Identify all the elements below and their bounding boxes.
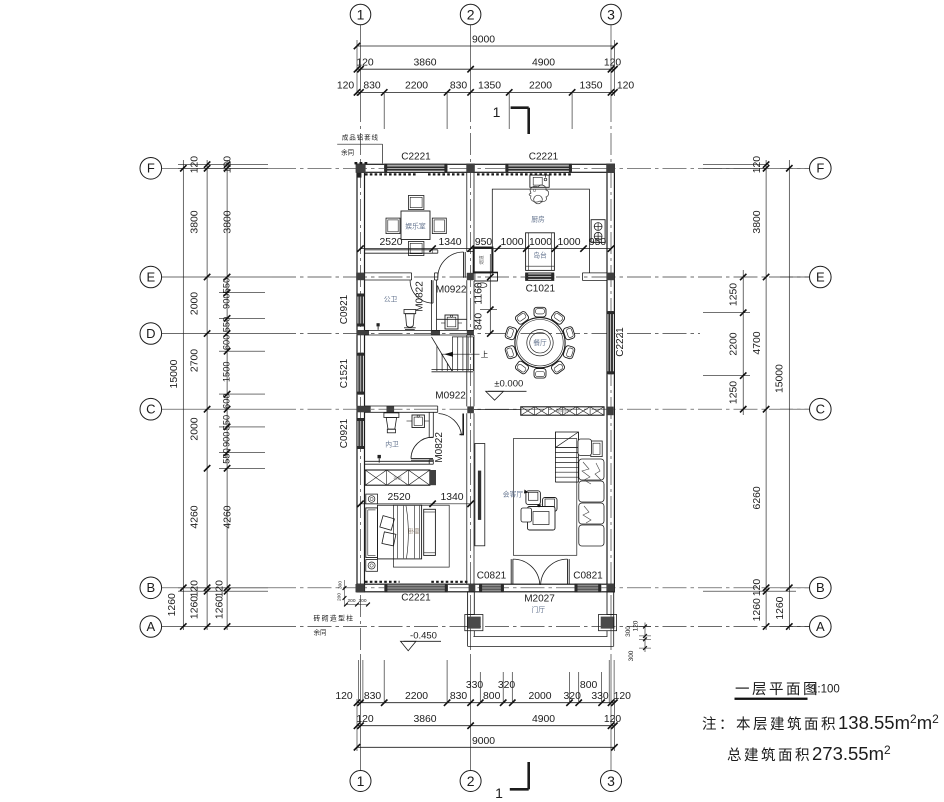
wall exterior left (357, 164, 365, 592)
kitchen counter edge (492, 189, 589, 273)
title first floor plan (735, 682, 840, 700)
svg-text:B: B (146, 580, 155, 595)
axis line vertical 1-2-3 (361, 25, 612, 770)
svg-text:300: 300 (628, 650, 635, 661)
svg-text:2520: 2520 (379, 237, 402, 248)
svg-text:3: 3 (607, 6, 615, 22)
wall D row (365, 331, 474, 335)
svg-text:1350: 1350 (579, 81, 602, 92)
dim chains left vertical lines (183, 160, 227, 630)
sofa row living (578, 439, 604, 546)
dining round table 10 chairs (504, 307, 575, 378)
window C2221 top left (384, 164, 447, 172)
svg-text:1350: 1350 (478, 81, 501, 92)
bed (366, 505, 422, 559)
label M0822 upper rot (414, 281, 425, 312)
svg-text:C1521: C1521 (339, 358, 350, 388)
svg-text:烟道: 烟道 (478, 255, 485, 264)
svg-text:200: 200 (347, 598, 355, 604)
dim top row 120 3860 4900 120 (354, 58, 622, 73)
label public wc (384, 296, 398, 304)
porch steps (468, 615, 614, 647)
svg-text:4700: 4700 (752, 331, 763, 354)
window C0821 bottom left (479, 584, 504, 592)
pier D/mid (431, 330, 440, 335)
section mark 1 top (493, 104, 529, 134)
svg-text:C2221: C2221 (401, 152, 431, 163)
svg-text:3800: 3800 (190, 210, 201, 233)
svg-text:1340: 1340 (440, 492, 463, 503)
tv cabinet (475, 444, 485, 546)
svg-text:830: 830 (364, 691, 382, 702)
dim top row 9000 (354, 35, 618, 97)
column B/2 (469, 584, 476, 592)
column C/3 (606, 407, 613, 416)
svg-text:120: 120 (356, 58, 374, 69)
svg-text:A: A (146, 619, 155, 634)
label M0922 upper (436, 284, 467, 295)
window C0921 left lower (357, 418, 365, 449)
svg-text:6260: 6260 (752, 486, 763, 509)
pier C/1 (357, 406, 371, 413)
svg-text:C2221: C2221 (401, 593, 431, 604)
svg-text:F: F (816, 161, 824, 176)
svg-text:餐厅: 餐厅 (533, 338, 547, 347)
svg-text:4260: 4260 (190, 505, 201, 528)
wall axis2 C to B (467, 413, 474, 584)
label game room (405, 222, 426, 231)
svg-text:C0921: C0921 (339, 294, 350, 324)
svg-text:120: 120 (337, 81, 355, 92)
svg-text:门厅: 门厅 (532, 605, 546, 614)
svg-text:岛台: 岛台 (533, 251, 547, 260)
svg-text:830: 830 (363, 81, 381, 92)
door M2027 entrance double (511, 559, 569, 585)
svg-text:2200: 2200 (405, 691, 428, 702)
bedroom rug (393, 505, 449, 567)
wall C row living segment (474, 409, 521, 411)
wardrobe bedroom (365, 470, 436, 485)
wall E row right of flue (474, 272, 498, 281)
svg-text:2520: 2520 (387, 492, 410, 503)
svg-text:C0821: C0821 (573, 571, 603, 582)
column B/1 (356, 584, 365, 592)
svg-text:2: 2 (467, 6, 475, 22)
svg-text:娱乐室: 娱乐室 (405, 222, 426, 231)
svg-text:内卫: 内卫 (385, 440, 399, 449)
svg-text:1500: 1500 (221, 361, 231, 382)
floor drain ensuite (378, 455, 381, 463)
svg-text:1250: 1250 (729, 283, 740, 306)
wall axis2 F to corridor (467, 172, 474, 251)
svg-text:1000: 1000 (529, 237, 552, 248)
label C1021 (526, 283, 556, 294)
kitchen stove (591, 220, 605, 243)
door M0922 corridor-dining (438, 252, 465, 278)
label C0821 left (477, 571, 507, 582)
axis bubbles F-A left (140, 158, 162, 638)
kitchen figure (529, 185, 549, 204)
svg-text:±0.000: ±0.000 (494, 379, 523, 390)
svg-text:成品铝套线: 成品铝套线 (342, 133, 379, 142)
svg-text:300: 300 (625, 626, 632, 637)
svg-text:200: 200 (358, 598, 366, 604)
note area text (702, 712, 939, 764)
porch side mini dims (625, 620, 651, 661)
label foyer (532, 605, 546, 614)
svg-text:120: 120 (617, 81, 635, 92)
wall bathroom2 east (429, 412, 433, 464)
dim row 2520 1340 950 1000 1000 1000 950 (357, 237, 614, 253)
toilet public wc (404, 310, 416, 330)
wall axis2 E to D (467, 280, 474, 330)
label island (533, 251, 547, 260)
svg-text:2000: 2000 (190, 292, 201, 315)
svg-text:120: 120 (604, 714, 622, 725)
game room table and chairs (386, 196, 446, 256)
svg-text:950: 950 (475, 237, 493, 248)
svg-text:15000: 15000 (775, 364, 786, 393)
label M0822 lower rot (434, 432, 445, 463)
svg-text:9000: 9000 (472, 736, 495, 747)
svg-text:320: 320 (498, 680, 516, 691)
svg-text:2200: 2200 (405, 81, 428, 92)
bedside stool upper (366, 494, 378, 504)
label C0821 right (573, 571, 603, 582)
wash basin nook (437, 315, 467, 329)
svg-text:120: 120 (214, 580, 225, 598)
label C2221 right rot (615, 327, 626, 357)
label dining (533, 338, 547, 347)
dim text left chain fine (214, 156, 233, 619)
svg-text:1250: 1250 (729, 381, 740, 404)
dim bottom row 120 3860 4900 120 (354, 714, 622, 729)
svg-text:9000: 9000 (472, 35, 495, 46)
curtain hatch bedroom (365, 581, 468, 583)
svg-text:1260: 1260 (167, 593, 178, 616)
wall E row bathroom north (365, 273, 438, 280)
svg-text:1260: 1260 (752, 598, 763, 621)
svg-text:900: 900 (221, 432, 231, 448)
svg-text:1260: 1260 (214, 596, 225, 619)
svg-text:330: 330 (591, 691, 609, 702)
wall partition below game room (365, 250, 438, 253)
svg-text:砖砌造型柱: 砖砌造型柱 (314, 614, 355, 623)
axis bubbles right (810, 158, 832, 638)
label C0921 lower rot (339, 418, 350, 448)
svg-text:M0822: M0822 (414, 281, 425, 312)
axis bubbles 1 2 3 top (350, 4, 621, 25)
axis line horizontal F E D C B A (162, 168, 809, 626)
svg-text:950: 950 (589, 237, 607, 248)
svg-text:2200: 2200 (529, 81, 552, 92)
svg-text:830: 830 (450, 691, 468, 702)
porch wall left (468, 592, 475, 615)
dim bottom row fine (335, 660, 631, 706)
wall C row (365, 406, 438, 412)
dim chain 1160 840 (474, 254, 498, 337)
svg-text:3800: 3800 (223, 210, 234, 233)
label kitchen (531, 214, 545, 223)
svg-text:600: 600 (221, 393, 231, 409)
window C2221 bottom bedroom (384, 584, 447, 592)
label C2221 top left (401, 152, 431, 163)
sink oval dining side (478, 283, 487, 288)
dim extension lines right (703, 165, 796, 592)
svg-text:4260: 4260 (223, 505, 234, 528)
living rug (513, 439, 576, 556)
svg-text:M0922: M0922 (436, 284, 467, 295)
window C1021 island pass-through (525, 273, 554, 280)
label bedroom (408, 528, 420, 536)
dim text right mid (752, 156, 763, 622)
window C1521 left (357, 353, 365, 395)
bench bedroom (424, 509, 436, 555)
svg-text:2200: 2200 (729, 332, 740, 355)
svg-text:120: 120 (604, 58, 622, 69)
door M0822 bathroom1 (410, 280, 433, 303)
window C0821 bottom right (575, 584, 602, 592)
porch column left (465, 615, 483, 631)
svg-text:550: 550 (221, 448, 231, 464)
floor drain public wc (377, 323, 380, 330)
svg-text:2: 2 (467, 773, 475, 789)
svg-text:厨房: 厨房 (531, 214, 545, 223)
column E/2 (467, 273, 474, 280)
column E/1 (356, 273, 364, 281)
svg-text:1000: 1000 (557, 237, 580, 248)
svg-text:C: C (146, 402, 155, 417)
dim text left 15000 (167, 359, 180, 616)
svg-text:550: 550 (221, 415, 231, 431)
svg-text:C0821: C0821 (477, 571, 507, 582)
label M2027 (524, 594, 555, 605)
svg-text:120: 120 (190, 156, 201, 174)
wall exterior bottom (357, 584, 614, 592)
porch column right (599, 615, 617, 631)
svg-text:1260: 1260 (190, 596, 201, 619)
svg-text:4900: 4900 (532, 58, 555, 69)
svg-text:水吧台: 水吧台 (556, 408, 569, 415)
leader brick column note (314, 580, 370, 637)
level marker zero (486, 379, 527, 401)
svg-text:330: 330 (466, 680, 484, 691)
dim chains right vertical lines (743, 160, 789, 630)
door M0922 hall-bedroomhall (439, 414, 464, 436)
svg-text:200: 200 (337, 593, 343, 601)
wall exterior right (607, 164, 614, 592)
coffee table set living (521, 490, 557, 531)
label C0921 upper rot (339, 294, 350, 324)
svg-text:900: 900 (221, 293, 231, 309)
door M0822 bathroom2 (411, 437, 433, 460)
bedside stool lower (366, 560, 378, 572)
dim row 2520 1340 bedroom (357, 492, 474, 507)
pier D/1 (357, 330, 370, 335)
svg-text:A: A (816, 619, 825, 634)
svg-text:C1021: C1021 (526, 283, 556, 294)
wall exterior top (357, 164, 614, 172)
dim ticks left (180, 161, 230, 629)
svg-text:1: 1 (495, 785, 503, 801)
dim text right fine (729, 283, 740, 404)
svg-text:120: 120 (356, 714, 374, 725)
svg-text:120: 120 (190, 580, 201, 598)
svg-text:卧室: 卧室 (408, 528, 420, 536)
label C2221 top kitchen (529, 152, 559, 163)
svg-text:D: D (146, 326, 155, 341)
svg-text:550: 550 (221, 278, 231, 294)
svg-text:4900: 4900 (532, 714, 555, 725)
level marker -0.450 (401, 630, 442, 651)
svg-text:E: E (816, 269, 825, 284)
label C1521 rot (339, 358, 350, 388)
svg-text:公卫: 公卫 (384, 296, 398, 304)
up label (481, 350, 489, 359)
svg-text:1000: 1000 (500, 237, 523, 248)
svg-text:120: 120 (335, 691, 353, 702)
svg-text:一层平面图: 一层平面图 (735, 682, 820, 698)
bar cabinet living (521, 407, 604, 415)
leader aluminum trim note (337, 133, 382, 178)
dim bottom row 9000 (354, 699, 618, 751)
stairs living room flight (555, 432, 578, 482)
dim text left chain mid (190, 156, 201, 619)
kitchen island (526, 233, 555, 271)
svg-text:F: F (147, 161, 155, 176)
column F/3 (606, 164, 615, 173)
svg-text:1260: 1260 (775, 596, 786, 619)
svg-text:830: 830 (450, 81, 468, 92)
svg-text:1:100: 1:100 (811, 684, 840, 696)
label C2221 bottom (401, 593, 431, 604)
svg-text:120: 120 (752, 156, 763, 174)
svg-text:C2221: C2221 (615, 327, 626, 357)
stairs hall flight with up arrow (432, 337, 480, 372)
pier D/2 (467, 330, 474, 335)
pier C/mid (387, 406, 395, 412)
wall bathroom2 south (365, 461, 434, 464)
svg-text:3: 3 (607, 773, 615, 789)
svg-text:上: 上 (481, 350, 489, 359)
svg-text:600: 600 (221, 335, 231, 351)
svg-text:1: 1 (357, 6, 365, 22)
svg-text:3860: 3860 (413, 714, 436, 725)
dim extension lines left (178, 165, 268, 592)
svg-text:120: 120 (633, 620, 640, 631)
svg-text:1160: 1160 (474, 282, 485, 305)
column F/2 (466, 164, 475, 173)
label living room (503, 490, 524, 499)
svg-text:会客厅: 会客厅 (503, 490, 524, 499)
svg-text:1: 1 (357, 773, 365, 789)
column C/2 (467, 406, 474, 413)
wall E row kitchen east segment (582, 273, 607, 281)
svg-text:余同: 余同 (341, 148, 354, 157)
svg-text:840: 840 (474, 313, 485, 331)
svg-text:C0921: C0921 (339, 418, 350, 448)
wash basin ensuite (407, 415, 430, 428)
svg-text:C2221: C2221 (529, 152, 559, 163)
column E/3 (607, 273, 615, 281)
svg-text:300: 300 (338, 581, 344, 589)
svg-text:120: 120 (223, 156, 234, 174)
svg-text:550: 550 (221, 317, 231, 333)
toilet ensuite (384, 413, 399, 433)
svg-text:2000: 2000 (190, 417, 201, 440)
svg-text:E: E (146, 269, 155, 284)
label ensuite wc (385, 440, 399, 449)
dim ticks right (740, 161, 793, 629)
svg-text:1340: 1340 (438, 237, 461, 248)
svg-text:15000: 15000 (169, 359, 180, 388)
svg-text:3800: 3800 (752, 210, 763, 233)
flue (474, 248, 493, 273)
column F/1 (356, 164, 366, 173)
window C2221 right (607, 311, 614, 374)
wall axis2 D to C (467, 335, 474, 406)
svg-text:余同: 余同 (314, 628, 327, 637)
svg-text:-0.450: -0.450 (410, 630, 437, 641)
porch wall right (607, 592, 614, 615)
svg-text:C: C (816, 402, 825, 417)
column B/3 (607, 584, 615, 592)
dim text right 15000 (775, 364, 787, 620)
svg-text:M2027: M2027 (524, 594, 555, 605)
svg-text:120: 120 (752, 579, 763, 597)
kitchen sink (530, 175, 549, 187)
window C0921 left upper (357, 294, 365, 327)
svg-text:3860: 3860 (413, 58, 436, 69)
svg-text:800: 800 (580, 680, 598, 691)
dim top row fine (337, 81, 635, 130)
svg-text:1: 1 (493, 104, 501, 120)
svg-text:120: 120 (614, 691, 632, 702)
window C2221 top kitchen (505, 164, 572, 172)
svg-text:衣柜: 衣柜 (393, 475, 401, 482)
svg-text:B: B (816, 580, 825, 595)
curtain hatch top wall (365, 173, 571, 175)
label M0922 lower (435, 391, 466, 402)
svg-text:2700: 2700 (190, 349, 201, 372)
section mark 1 bottom (495, 762, 529, 801)
wall bathroom1 east (432, 280, 437, 330)
svg-text:800: 800 (483, 691, 501, 702)
svg-text:M0922: M0922 (435, 391, 466, 402)
axis bubbles 1 2 3 bottom (350, 771, 622, 792)
svg-text:M0822: M0822 (434, 432, 445, 463)
svg-text:2000: 2000 (528, 691, 551, 702)
